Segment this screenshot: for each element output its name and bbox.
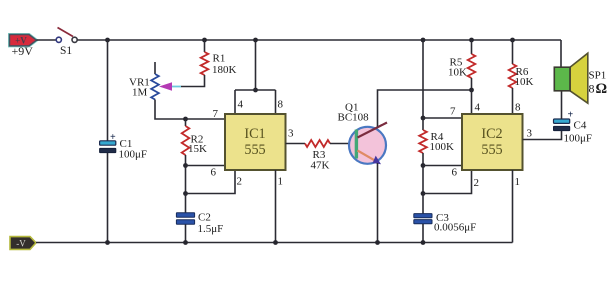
svg-text:1.5μF: 1.5μF bbox=[198, 223, 224, 235]
svg-text:4: 4 bbox=[238, 99, 244, 111]
svg-text:8: 8 bbox=[515, 102, 521, 114]
node R2 top junction bbox=[183, 117, 188, 122]
svg-text:3: 3 bbox=[527, 128, 533, 140]
node rail-C1 junction bbox=[105, 38, 110, 43]
capacitor C4 100uF bbox=[554, 110, 593, 145]
wire pin4 (IC2) bbox=[471, 90, 473, 114]
wire C1 branch lower bbox=[107, 153, 109, 243]
svg-text:4: 4 bbox=[475, 102, 481, 114]
wire pin6 into IC2 bbox=[423, 165, 462, 167]
node ground-C2 bbox=[183, 240, 188, 245]
svg-text:R1: R1 bbox=[213, 53, 226, 65]
capacitor C1 bbox=[100, 132, 147, 161]
wire pin2 of IC1 bbox=[186, 170, 236, 194]
capacitor C2 1.5uF bbox=[176, 194, 223, 243]
svg-text:-V: -V bbox=[16, 238, 26, 248]
wire pin7 into IC2 bbox=[423, 117, 462, 119]
svg-text:7: 7 bbox=[450, 106, 456, 118]
svg-text:7: 7 bbox=[213, 108, 219, 120]
wire pin2 of IC2 bbox=[423, 170, 472, 194]
svg-text:100K: 100K bbox=[430, 141, 455, 153]
node pin2/C2 junction bbox=[183, 191, 188, 196]
svg-text:555: 555 bbox=[244, 142, 265, 158]
wire bottom ground rail bbox=[36, 242, 513, 244]
node rail-R6 junction bbox=[510, 38, 515, 43]
node rail-R5 junction bbox=[469, 38, 474, 43]
svg-text:10K: 10K bbox=[448, 67, 467, 79]
node ground-emitter bbox=[375, 240, 380, 245]
wire pin3 (IC2) to C4 bbox=[523, 131, 562, 140]
wire R2 bottom to pin2 node bbox=[185, 166, 187, 194]
svg-text:10K: 10K bbox=[515, 76, 534, 88]
svg-text:+9V: +9V bbox=[12, 44, 34, 58]
svg-text:100μF: 100μF bbox=[564, 133, 593, 145]
node pin6 (IC2) junction bbox=[421, 163, 426, 168]
power symbol -V bbox=[10, 237, 36, 250]
svg-text:Ω: Ω bbox=[596, 81, 608, 97]
svg-text:15K: 15K bbox=[188, 143, 207, 155]
svg-text:SP1: SP1 bbox=[589, 70, 607, 82]
wire down to pin2 node bbox=[422, 166, 424, 194]
wire R3 to Q1 base bbox=[330, 143, 355, 145]
wire R1 bottom to VR1 wiper bbox=[181, 75, 205, 87]
svg-text:6: 6 bbox=[452, 167, 458, 179]
node rail-R1 junction bbox=[202, 38, 207, 43]
node ground-C1 bbox=[105, 240, 110, 245]
wire Q1 collector up and right bbox=[378, 90, 472, 127]
svg-text:180K: 180K bbox=[212, 64, 237, 76]
wire rail drop to speaker bbox=[560, 40, 562, 68]
potentiometer VR1 1M bbox=[129, 62, 172, 100]
wire rail to IC1 pins 4,8 bbox=[255, 40, 257, 90]
wire pin3 out of IC1 bbox=[286, 143, 306, 145]
wire pin6 into IC1 bbox=[186, 165, 226, 167]
svg-text:2: 2 bbox=[237, 176, 243, 188]
node rail-R4 junction bbox=[421, 38, 426, 43]
transistor Q1 BC108 bbox=[338, 102, 388, 165]
svg-text:C4: C4 bbox=[574, 120, 587, 132]
wire top supply rail bbox=[78, 39, 562, 41]
wire pin1 (IC2) down bbox=[512, 170, 514, 243]
node ground-C3 bbox=[421, 240, 426, 245]
node R2 bottom junction bbox=[183, 163, 188, 168]
svg-text:IC1: IC1 bbox=[244, 126, 265, 142]
wire rail down to pin7 node bbox=[422, 40, 424, 118]
wire pin1 (IC1) to ground rail bbox=[275, 170, 277, 243]
wire C1 branch upper bbox=[107, 40, 109, 141]
switch S1 bbox=[56, 28, 77, 58]
speaker SP1 8ohm bbox=[554, 53, 607, 103]
node ground-IC1pin1 bbox=[273, 240, 278, 245]
wire pin7 into IC1 bbox=[186, 118, 226, 120]
resistor R2 15K bbox=[182, 119, 207, 166]
resistor R1 180K bbox=[201, 40, 237, 76]
capacitor C3 0.0056uF bbox=[414, 194, 476, 243]
resistor R5 10K bbox=[448, 40, 475, 90]
node R5/collector/pin4 junction bbox=[469, 88, 474, 93]
svg-text:S1: S1 bbox=[60, 45, 72, 57]
svg-text:555: 555 bbox=[481, 142, 502, 158]
svg-text:3: 3 bbox=[288, 128, 294, 140]
svg-text:BC108: BC108 bbox=[338, 112, 370, 124]
svg-text:IC2: IC2 bbox=[481, 126, 502, 142]
svg-text:2: 2 bbox=[474, 177, 480, 189]
svg-text:8: 8 bbox=[589, 82, 595, 96]
wire Q1 emitter to ground rail bbox=[377, 163, 379, 243]
svg-text:1: 1 bbox=[278, 176, 284, 188]
resistor R3 47K bbox=[305, 140, 330, 172]
wire C4 to speaker bbox=[561, 91, 563, 119]
wire wiper cyan segment bbox=[171, 86, 181, 88]
svg-text:100μF: 100μF bbox=[119, 149, 148, 161]
op-amp/timer IC1 555 bbox=[225, 114, 286, 170]
op-amp/timer IC2 555 bbox=[462, 114, 523, 170]
node pin2/C3 junction bbox=[421, 191, 426, 196]
svg-text:47K: 47K bbox=[311, 160, 330, 172]
wire pin8 (IC2) bbox=[512, 88, 514, 114]
svg-text:0.0056μF: 0.0056μF bbox=[434, 221, 476, 233]
resistor R4 100K bbox=[419, 118, 454, 166]
power symbol +V bbox=[10, 35, 37, 46]
node rail-IC1supply junction bbox=[253, 38, 258, 43]
wire pin8 (IC1) bbox=[275, 90, 277, 114]
svg-text:1: 1 bbox=[515, 176, 521, 188]
svg-text:1M: 1M bbox=[132, 87, 148, 99]
wire pin4 (IC1) bbox=[234, 90, 236, 114]
wire +V to S1 bbox=[37, 39, 57, 41]
wire bracket pins 4-8 bbox=[235, 89, 276, 91]
svg-text:C2: C2 bbox=[198, 212, 211, 224]
svg-text:6: 6 bbox=[211, 167, 217, 179]
node bracket junction bbox=[253, 88, 258, 93]
node pin7 (IC2) junction bbox=[421, 116, 426, 121]
svg-text:+: + bbox=[110, 132, 116, 143]
wire VR1 bottom to pin7 node bbox=[155, 100, 186, 120]
svg-text:8: 8 bbox=[278, 99, 284, 111]
resistor R6 10K bbox=[509, 40, 534, 88]
